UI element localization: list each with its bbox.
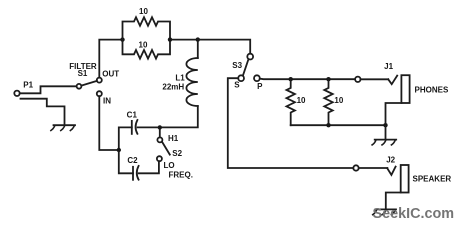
node junction R4 top xyxy=(326,77,330,81)
switch S3 xyxy=(238,54,260,81)
node right junction xyxy=(168,37,172,41)
svg-text:S3: S3 xyxy=(232,61,242,70)
svg-text:IN: IN xyxy=(103,96,111,105)
svg-text:H1: H1 xyxy=(168,134,179,143)
resistor R2 bottom 10 xyxy=(123,40,171,59)
svg-text:S: S xyxy=(234,80,240,89)
svg-text:OUT: OUT xyxy=(102,69,119,78)
svg-text:SeekIC.com: SeekIC.com xyxy=(373,206,455,222)
wire S3 S contact to J2 xyxy=(228,78,353,168)
svg-text:SPEAKER: SPEAKER xyxy=(413,175,452,184)
svg-text:LO: LO xyxy=(164,161,175,170)
svg-text:S2: S2 xyxy=(172,149,182,158)
node A junction xyxy=(196,37,200,41)
resistor R4 10 xyxy=(324,79,332,125)
node junction R3 top xyxy=(289,77,293,81)
svg-text:P1: P1 xyxy=(23,81,33,90)
svg-text:PHONES: PHONES xyxy=(415,86,449,95)
svg-text:L1: L1 xyxy=(175,73,185,82)
inductor L1 xyxy=(162,42,198,128)
ground xyxy=(372,125,396,145)
svg-text:10: 10 xyxy=(334,96,343,105)
ground xyxy=(373,209,396,214)
svg-text:10: 10 xyxy=(139,7,148,16)
wire bottom rail xyxy=(291,124,386,126)
switch S2 xyxy=(157,130,170,162)
wire node A to S3 pole xyxy=(198,40,250,54)
capacitor C2 xyxy=(119,152,159,180)
switch S1 xyxy=(77,78,102,97)
wire S1 IN down to node C xyxy=(99,96,116,150)
svg-text:P: P xyxy=(257,82,263,91)
node left junction xyxy=(120,37,124,41)
node C junction xyxy=(117,148,121,152)
svg-text:10: 10 xyxy=(139,41,148,50)
svg-text:C1: C1 xyxy=(127,110,138,119)
node B junction xyxy=(158,125,162,129)
wire P1 tip to S1 pole xyxy=(20,86,77,93)
svg-text:C2: C2 xyxy=(127,156,138,165)
wire to node A xyxy=(172,39,195,41)
svg-text:J1: J1 xyxy=(384,62,393,71)
jack J1 xyxy=(355,75,410,123)
ground xyxy=(51,125,75,130)
wire S1 OUT up to resistor network xyxy=(99,40,120,78)
jack J2 xyxy=(353,165,408,209)
svg-text:22mH: 22mH xyxy=(162,82,184,91)
svg-text:S1: S1 xyxy=(78,69,88,78)
svg-text:FREQ.: FREQ. xyxy=(169,170,193,179)
resistor R1 top 10 xyxy=(123,17,171,39)
svg-text:10: 10 xyxy=(297,96,306,105)
jack P1 xyxy=(14,91,64,125)
resistor R3 10 xyxy=(287,79,295,125)
wire S3 P contact to J1 xyxy=(260,78,355,81)
node junction ground tap xyxy=(383,123,387,127)
capacitor C1 xyxy=(119,120,158,148)
node junction R4 bottom xyxy=(326,123,330,127)
svg-text:J2: J2 xyxy=(386,156,395,165)
